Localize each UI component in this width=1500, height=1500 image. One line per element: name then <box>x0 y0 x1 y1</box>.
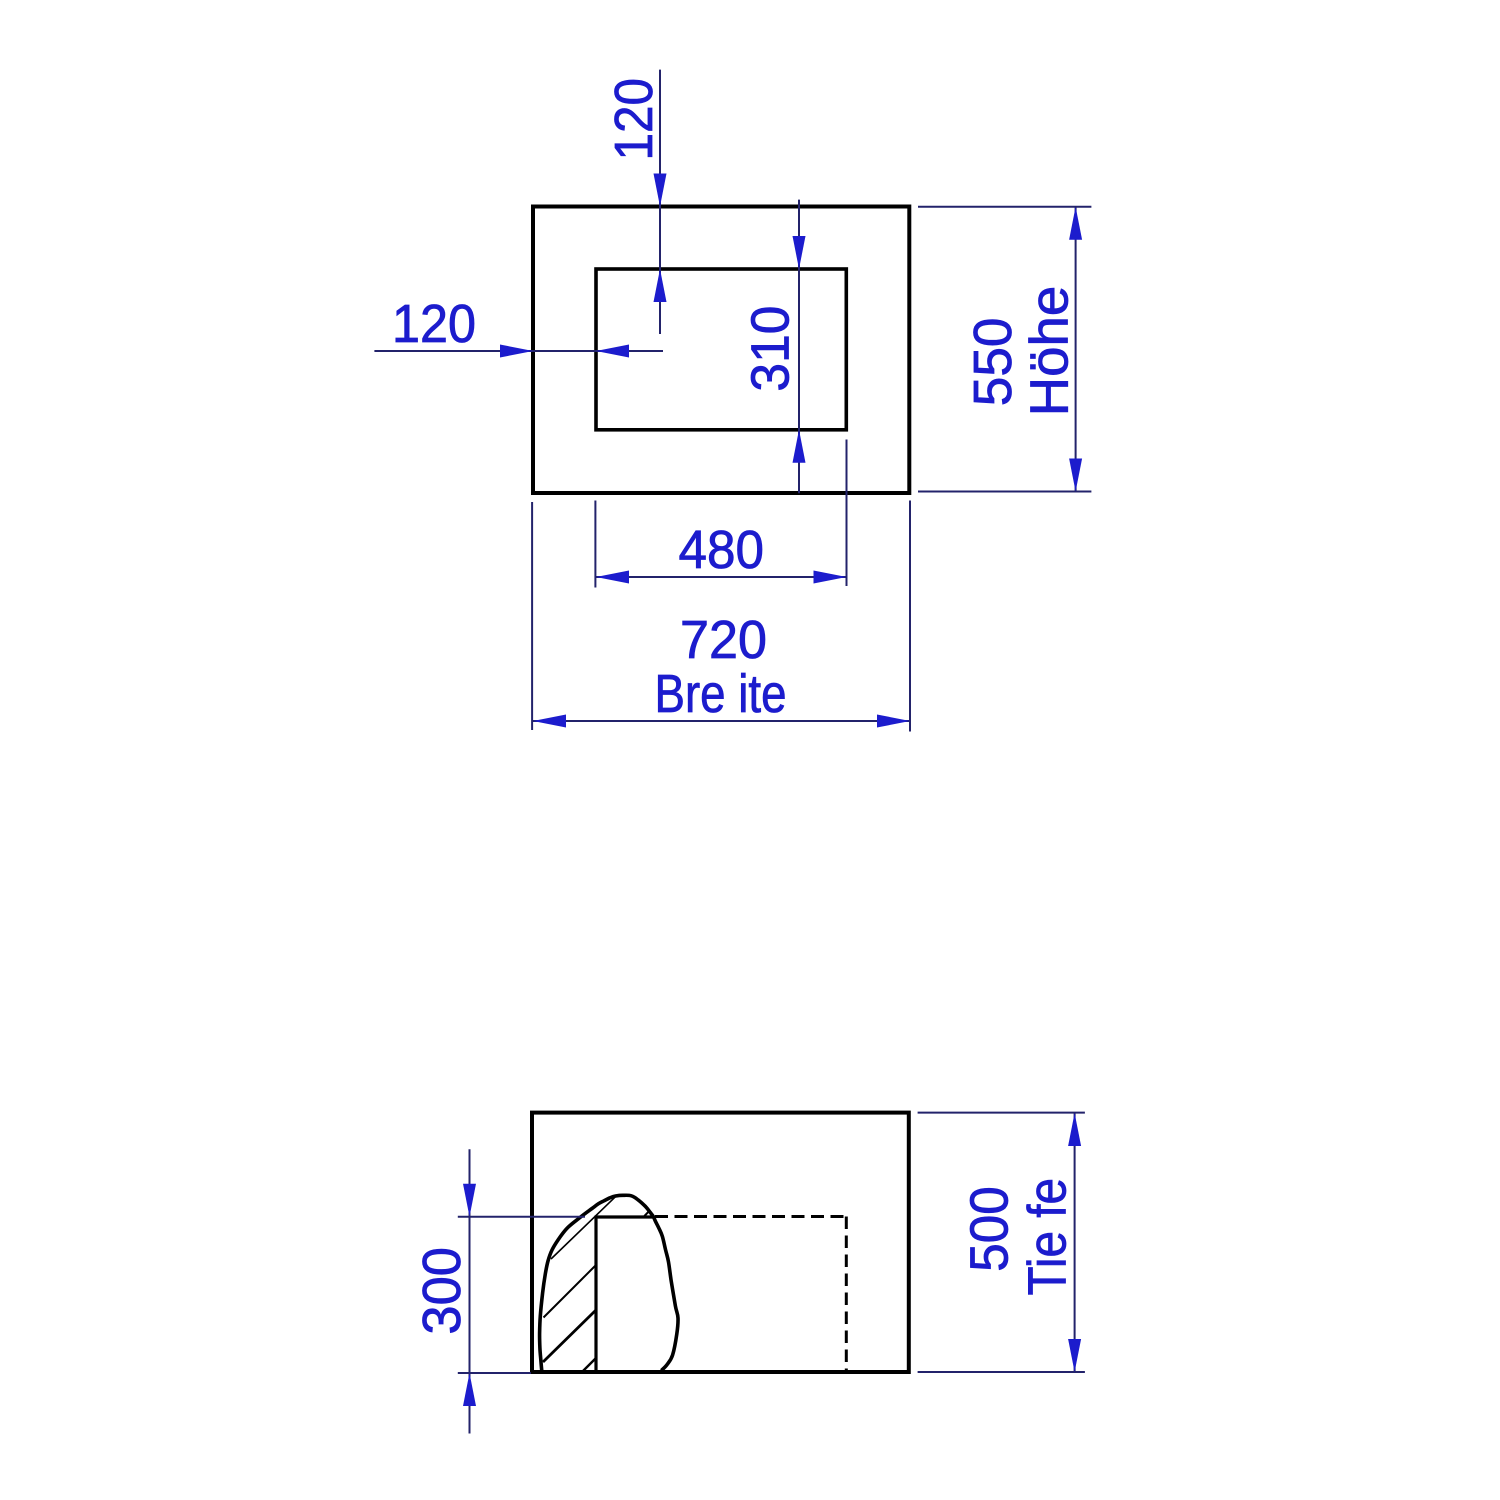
arrow down at inner top <box>793 236 806 269</box>
arrow right 720 <box>877 715 910 728</box>
dim line vertical 120 (top) <box>659 70 661 334</box>
550 extension line top <box>918 206 1091 208</box>
arrow up 300 <box>463 1373 476 1406</box>
dim line 310 vertical <box>798 200 800 494</box>
hatch line 4 <box>583 1358 596 1371</box>
svg-text:120: 120 <box>604 78 664 161</box>
svg-text:Höhe: Höhe <box>1020 286 1080 417</box>
arrow up 550 <box>1069 207 1082 240</box>
recess top solid line <box>595 1215 654 1218</box>
500 ext top <box>918 1112 1085 1114</box>
svg-text:500: 500 <box>959 1186 1019 1272</box>
hatch line 2 <box>544 1265 597 1318</box>
arrow left 480 <box>596 571 629 584</box>
500 ext bottom <box>918 1371 1085 1373</box>
hatch line 3 <box>543 1310 596 1362</box>
recess vertical solid line <box>594 1218 597 1373</box>
svg-text:Tie fe: Tie fe <box>1017 1178 1077 1296</box>
dashed top line <box>655 1215 846 1218</box>
720 extension right <box>909 501 911 732</box>
svg-text:720: 720 <box>680 610 767 670</box>
arrow right at outer left <box>500 345 533 358</box>
arrow up 500 <box>1068 1113 1081 1146</box>
svg-text:310: 310 <box>740 306 800 392</box>
svg-text:550: 550 <box>963 318 1023 407</box>
arrow up at inner top <box>654 269 667 302</box>
arrow left at inner left <box>596 345 629 358</box>
dashed right line <box>845 1217 848 1373</box>
svg-text:Bre ite: Bre ite <box>655 664 787 724</box>
300 dim line <box>469 1149 471 1433</box>
550 extension line bottom <box>918 491 1091 493</box>
hatch line 1 <box>551 1196 616 1259</box>
500 dim line <box>1074 1113 1076 1372</box>
arrow down 500 <box>1068 1339 1081 1372</box>
arrow up at inner bottom <box>793 430 806 463</box>
dim line horizontal 120 (left) <box>374 350 663 352</box>
arrow down 300 <box>463 1184 476 1217</box>
svg-text:300: 300 <box>412 1247 472 1335</box>
arrow down at outer top <box>654 174 667 207</box>
480 dim line <box>596 576 847 578</box>
arrow right 480 <box>814 571 847 584</box>
300 ext bottom <box>458 1372 531 1374</box>
550 dim line <box>1075 207 1077 492</box>
300 ext top <box>458 1216 585 1218</box>
720 dim line <box>533 720 910 722</box>
svg-text:480: 480 <box>679 520 765 580</box>
svg-text:120: 120 <box>392 294 476 354</box>
inner rectangle 480x310 <box>596 269 846 430</box>
outer rectangle 720x550 <box>533 207 909 494</box>
outer rectangle 720x500 <box>532 1113 909 1372</box>
480 extension right <box>846 440 848 587</box>
curved outline <box>540 1195 678 1372</box>
arrow left 720 <box>533 715 566 728</box>
720 extension left <box>531 502 533 730</box>
arrow down 550 <box>1069 459 1082 492</box>
hatch tick right of apex <box>644 1210 650 1216</box>
480 extension left <box>594 501 596 588</box>
